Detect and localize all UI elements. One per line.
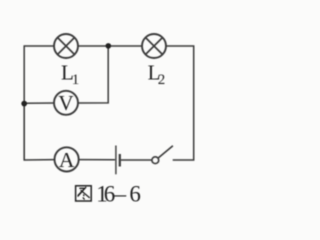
- battery positive plate (long): [115, 146, 117, 175]
- svg-text:A: A: [59, 148, 75, 172]
- ammeter A circle: [55, 147, 79, 171]
- wire left rail and top-left segment: [24, 46, 54, 160]
- svg-text:2: 2: [158, 72, 166, 88]
- switch S pivot: [152, 157, 159, 164]
- caption character 图: [76, 186, 92, 201]
- battery negative plate (short): [119, 154, 121, 167]
- wire battery to ammeter: [79, 159, 115, 161]
- lamp L2: [142, 34, 166, 58]
- voltmeter V circle: [54, 91, 78, 115]
- junction node on top wire: [106, 43, 112, 49]
- wire ammeter to bottom-left corner and lower left rail: [24, 106, 54, 160]
- svg-text:1: 1: [72, 72, 80, 88]
- wire between lamps: [78, 45, 142, 47]
- switch S lever: [158, 146, 173, 158]
- svg-text:6: 6: [129, 181, 141, 206]
- svg-text:V: V: [58, 91, 73, 115]
- voltmeter branch left wire: [24, 102, 54, 104]
- wire switch to battery: [121, 159, 152, 161]
- voltmeter branch right wire up to top junction: [78, 46, 108, 103]
- lamp L1: [54, 34, 78, 58]
- svg-text:–: –: [114, 181, 127, 206]
- junction node on left rail: [21, 101, 27, 107]
- svg-text:6: 6: [104, 181, 116, 206]
- wire L2 to top-right corner and right rail: [166, 46, 194, 160]
